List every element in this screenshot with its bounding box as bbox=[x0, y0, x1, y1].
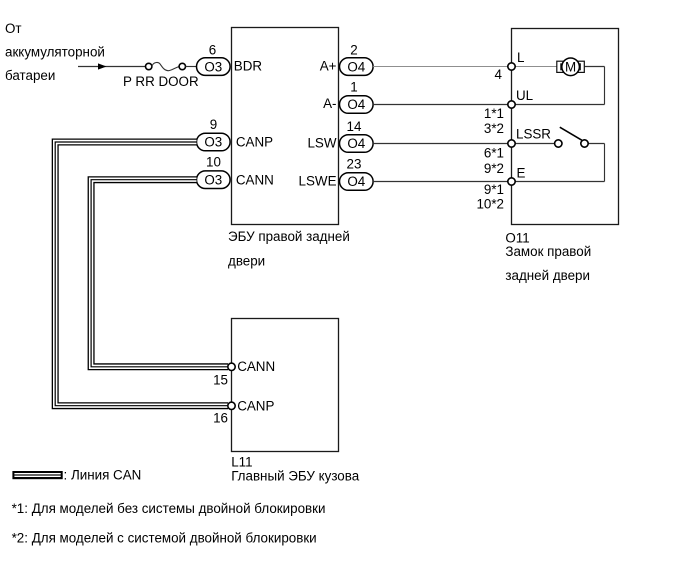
svg-text:LSW: LSW bbox=[307, 135, 336, 150]
connector O4 pin 23 (LSWE) bbox=[340, 157, 374, 191]
svg-text:A+: A+ bbox=[320, 58, 337, 73]
svg-text:10: 10 bbox=[206, 155, 221, 170]
wire LSWE to E bbox=[373, 181, 511, 183]
svg-text:E: E bbox=[517, 166, 526, 181]
wire LSW to LSSR bbox=[373, 143, 554, 145]
svg-text:Главный ЭБУ кузова: Главный ЭБУ кузова bbox=[231, 469, 360, 484]
svg-text:A-: A- bbox=[323, 96, 336, 111]
pin UL bbox=[508, 101, 515, 108]
wire A- to UL bbox=[373, 104, 511, 106]
svg-text:O3: O3 bbox=[204, 135, 222, 150]
svg-text:BDR: BDR bbox=[234, 58, 263, 73]
svg-text:UL: UL bbox=[516, 88, 533, 103]
svg-text:O4: O4 bbox=[347, 136, 365, 151]
wire A+ to L and motor loop bbox=[373, 67, 604, 105]
svg-text:23: 23 bbox=[347, 157, 362, 172]
pin CANN 15 bbox=[228, 363, 235, 370]
svg-text:O3: O3 bbox=[204, 59, 222, 74]
svg-text:6: 6 bbox=[209, 42, 216, 57]
connector O4 pin 2 (A+) bbox=[340, 42, 374, 75]
svg-text:16: 16 bbox=[213, 411, 228, 426]
svg-text:батареи: батареи bbox=[5, 68, 55, 83]
svg-text:ЭБУ правой задней: ЭБУ правой задней bbox=[228, 229, 350, 244]
svg-text:CANP: CANP bbox=[236, 135, 273, 150]
svg-text:2: 2 bbox=[350, 42, 357, 57]
svg-text:1: 1 bbox=[350, 80, 357, 95]
door lock box O11 bbox=[512, 29, 619, 225]
svg-text:Замок правой: Замок правой bbox=[505, 244, 591, 259]
svg-text:14: 14 bbox=[347, 119, 362, 134]
ECU right rear door box bbox=[232, 28, 339, 225]
node O11 label bbox=[505, 231, 591, 284]
svg-text:O4: O4 bbox=[347, 97, 365, 112]
svg-text:O4: O4 bbox=[347, 174, 365, 189]
svg-text:L: L bbox=[517, 50, 524, 65]
motor M bbox=[557, 58, 585, 76]
pin LSSR bbox=[508, 140, 515, 147]
svg-text:CANN: CANN bbox=[237, 359, 275, 374]
svg-text:M: M bbox=[565, 60, 576, 75]
svg-text:9*2: 9*2 bbox=[484, 161, 504, 176]
svg-text:4: 4 bbox=[495, 67, 503, 82]
svg-text:1*1: 1*1 bbox=[484, 106, 504, 121]
legend: CAN line symbol bbox=[12, 467, 141, 482]
node L11 label bbox=[231, 455, 360, 484]
svg-text:LSSR: LSSR bbox=[516, 127, 551, 142]
node: battery source label bbox=[5, 21, 105, 83]
svg-text:P RR DOOR: P RR DOOR bbox=[123, 74, 199, 89]
svg-text:O3: O3 bbox=[204, 172, 222, 187]
pin L bbox=[508, 63, 515, 70]
CAN bus CANN wire (triple line) bbox=[91, 180, 228, 367]
connector O4 pin 1 (A-) bbox=[340, 80, 374, 114]
svg-text:L11: L11 bbox=[231, 455, 252, 470]
main body ECU box L11 bbox=[232, 319, 339, 452]
svg-text:15: 15 bbox=[213, 373, 228, 388]
connector O3 pin 9 (CANP) bbox=[197, 117, 231, 151]
svg-text:*1: Для моделей без системы дв: *1: Для моделей без системы двойной блок… bbox=[12, 501, 326, 516]
wire switch to E loop bbox=[512, 144, 605, 182]
connector O4 pin 14 (LSW) bbox=[340, 119, 374, 152]
svg-text:От: От bbox=[5, 21, 22, 36]
svg-text:9*1: 9*1 bbox=[484, 182, 504, 197]
CAN bus CANP wire (triple line) bbox=[55, 142, 228, 406]
pin CANP 16 bbox=[228, 402, 235, 409]
svg-text:O4: O4 bbox=[347, 59, 365, 74]
connector O3 pin 10 (CANN) bbox=[197, 155, 231, 189]
svg-text:10*2: 10*2 bbox=[476, 197, 504, 212]
svg-text:*2: Для моделей с системой дво: *2: Для моделей с системой двойной блоки… bbox=[12, 531, 317, 546]
svg-text:9: 9 bbox=[210, 117, 217, 132]
svg-text:: Линия CAN: : Линия CAN bbox=[64, 467, 142, 482]
svg-text:двери: двери bbox=[228, 254, 265, 269]
svg-text:аккумуляторной: аккумуляторной bbox=[5, 45, 105, 60]
connector O3 pin 6 (BDR) bbox=[197, 42, 231, 75]
wire: battery feed to fuse bbox=[78, 66, 146, 68]
svg-text:3*2: 3*2 bbox=[484, 121, 504, 136]
arrow: current direction bbox=[98, 63, 107, 69]
svg-text:LSWE: LSWE bbox=[299, 173, 337, 188]
svg-text:CANN: CANN bbox=[236, 172, 274, 187]
fuse P RR DOOR bbox=[123, 62, 199, 89]
svg-text:задней двери: задней двери bbox=[505, 268, 590, 283]
pin E bbox=[508, 178, 515, 185]
svg-text:CANP: CANP bbox=[237, 399, 274, 414]
switch LSSR bbox=[555, 127, 589, 147]
svg-text:6*1: 6*1 bbox=[484, 146, 504, 161]
